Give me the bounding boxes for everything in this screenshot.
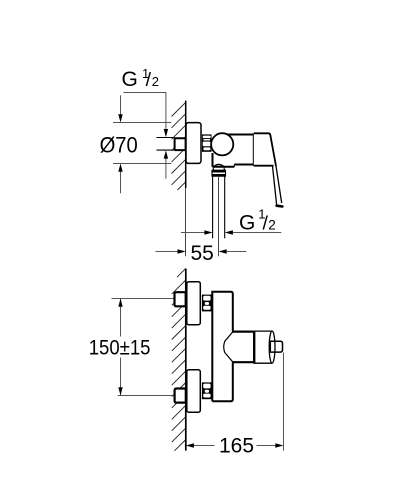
svg-text:G: G xyxy=(239,211,255,234)
svg-text:2: 2 xyxy=(152,74,159,89)
svg-text:55: 55 xyxy=(191,242,214,265)
svg-text:2: 2 xyxy=(268,217,276,232)
svg-text:/: / xyxy=(146,69,152,91)
svg-text:165: 165 xyxy=(219,434,254,457)
svg-text:G: G xyxy=(122,68,138,91)
svg-text:Ø70: Ø70 xyxy=(100,133,138,158)
svg-text:150±15: 150±15 xyxy=(89,337,151,360)
